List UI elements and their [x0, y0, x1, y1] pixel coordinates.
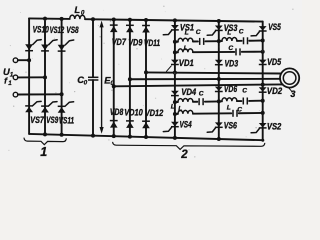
- label VD12: [145, 108, 164, 118]
- diode VD9: [126, 25, 134, 32]
- svg-text:VS5: VS5: [268, 22, 281, 32]
- junction lower branch at column 1 (top half): [173, 50, 177, 54]
- svg-text:VS6: VS6: [224, 121, 238, 131]
- svg-text:L: L: [185, 30, 189, 37]
- junction lower branch at column 3 (bottom half): [261, 111, 265, 115]
- label VD1: [179, 58, 194, 68]
- label VS10: [33, 25, 50, 35]
- junction upper branch at column 2 (top half): [217, 39, 221, 43]
- label VS8: [66, 25, 79, 35]
- wire: phase 2 input to leg B: [18, 76, 45, 78]
- junction upper branch at column 3 (bottom half): [261, 99, 265, 103]
- svg-text:VS9: VS9: [46, 115, 59, 125]
- label L: [171, 104, 175, 111]
- svg-text:VS8: VS8: [66, 25, 79, 35]
- input terminal 3: [13, 92, 18, 97]
- wire: inverter column 3 vertical: [262, 22, 264, 141]
- junction column 2 on top bus: [217, 19, 221, 23]
- label VS3: [224, 23, 238, 33]
- wire: feedback leg 2 vertical: [129, 20, 131, 137]
- wire: coil across column 2 to capacitor (bottom half): [193, 112, 231, 114]
- junction on bottom bus at leg B: [43, 132, 47, 136]
- svg-text:VS2: VS2: [267, 121, 282, 131]
- diode VD10: [126, 121, 134, 128]
- junction column 1 on top bus: [173, 18, 177, 22]
- svg-text:VD2: VD2: [267, 86, 283, 96]
- label VD4: [181, 87, 197, 97]
- wire: bottom DC bus: [29, 134, 263, 140]
- thyristor VS7: [25, 101, 41, 112]
- wire: coil to capacitor (VS6-VS2): [237, 100, 242, 102]
- svg-text:L: L: [227, 29, 231, 36]
- svg-text:C: C: [199, 91, 204, 98]
- thyristor VS10: [25, 40, 41, 51]
- thyristor VS11: [58, 102, 74, 113]
- diode VD7: [110, 25, 118, 32]
- wire: top DC bus, main segment to inverter: [85, 19, 263, 21]
- junction on top bus at leg B: [43, 17, 47, 21]
- wire: phase rail 2 (middle): [130, 78, 280, 80]
- junction C0 on bottom bus: [91, 134, 95, 138]
- wire: coil to capacitor (VS1-VS3 upper): [193, 40, 198, 42]
- thyristor VS5: [251, 26, 267, 36]
- label VS5: [268, 22, 281, 32]
- wire: upper commutation branch 1-3 segment col1 to coil: [175, 41, 178, 43]
- junction feedback leg 3 on top bus: [144, 18, 148, 22]
- inductor L (commutation, VS3-VS5 upper): [222, 38, 237, 42]
- diode VD8: [110, 121, 118, 128]
- label L: [184, 45, 188, 52]
- wire: capacitor to column 3 (bottom half): [249, 100, 263, 102]
- svg-text:VD5: VD5: [267, 57, 282, 67]
- svg-text:C: C: [228, 45, 233, 52]
- label C: [242, 88, 247, 95]
- label VS6: [224, 121, 238, 131]
- diode VD2: [259, 87, 267, 92]
- label 3: [290, 89, 295, 99]
- junction phase 2 on leg B: [43, 75, 47, 79]
- EMF arrow E0 (double-headed vertical arrow): [100, 21, 104, 134]
- label VD6: [224, 84, 238, 94]
- input terminal 1: [13, 58, 18, 63]
- wire: coil across column 2 to capacitor (top half): [193, 51, 234, 53]
- svg-text:2: 2: [180, 149, 188, 160]
- inductor L (commutation, VS1-VS3 upper): [178, 38, 193, 42]
- label L: [227, 29, 231, 36]
- svg-text:C: C: [237, 106, 242, 113]
- svg-text:VS4: VS4: [180, 119, 193, 129]
- junction feedback leg 1 on bottom bus: [112, 134, 116, 138]
- inductor L0 (DC link choke) on top bus: [70, 15, 85, 19]
- svg-text:VD9: VD9: [128, 38, 143, 48]
- svg-text:L: L: [184, 45, 188, 52]
- wire: rectifier leg C vertical: [61, 19, 63, 135]
- wire: lower commutation branch col1 to coil (bottom half): [175, 113, 178, 115]
- svg-text:VS12: VS12: [50, 25, 65, 35]
- junction lower branch at column 3 (top half): [261, 50, 265, 54]
- junction upper branch at column 1 (top half): [173, 40, 177, 44]
- svg-text:C: C: [196, 29, 201, 36]
- wire: rectifier leg B vertical: [44, 19, 46, 135]
- label VS1: [180, 23, 194, 33]
- capacitor C (commutation, VS2-VS4 lower): [233, 110, 237, 117]
- svg-text:VD7: VD7: [112, 37, 127, 47]
- wire: phase rail 1 (top): [146, 72, 281, 73]
- label VS7: [30, 115, 44, 125]
- junction rail 1 at inverter column 1: [173, 71, 177, 75]
- capacitor C (commutation, VS1-VS3 upper): [200, 38, 204, 45]
- svg-text:VD8: VD8: [110, 107, 124, 117]
- inductor L (commutation, VS2-VS4 lower): [178, 110, 193, 114]
- label VD11: [144, 38, 160, 48]
- capacitor C (commutation, VS6-VS2): [243, 98, 247, 105]
- svg-text:1: 1: [10, 72, 14, 79]
- svg-text:VS7: VS7: [30, 115, 44, 125]
- svg-text:L: L: [171, 104, 175, 111]
- diode VD1: [171, 60, 179, 65]
- inductor L (commutation, VS6-VS2): [222, 98, 237, 102]
- wire: top DC bus, left segment with corner at left leg: [29, 17, 70, 20]
- wire: inverter column 1 vertical: [174, 20, 176, 137]
- junction rail 3 at feedback leg 1: [112, 84, 116, 88]
- svg-text:VS11: VS11: [59, 115, 74, 125]
- capacitor C (commutation, VS3-VS5 upper): [244, 37, 248, 44]
- junction phase 3 on leg C: [60, 92, 64, 96]
- svg-text:VD11: VD11: [144, 38, 160, 48]
- diode VD12: [142, 121, 150, 128]
- capacitor C (commutation, VS5-VS1 lower): [236, 48, 240, 55]
- wire: lower commutation branch col1 to coil (top half): [175, 51, 178, 53]
- junction C0 on top bus: [91, 17, 95, 21]
- inductor L (commutation, VS4-VS6 upper): [178, 98, 193, 102]
- junction feedback leg 2 on bottom bus: [128, 135, 132, 139]
- wire: capacitor to column 2 (upper): [206, 40, 219, 42]
- diode VD6: [215, 87, 223, 92]
- label L: [227, 104, 231, 111]
- svg-text:C: C: [239, 29, 244, 36]
- label L: [185, 30, 189, 37]
- thyristor VS6: [207, 122, 223, 132]
- thyristor VS8: [58, 40, 74, 51]
- label L0: [74, 4, 85, 16]
- label VD7: [112, 37, 127, 47]
- label 2: [180, 149, 188, 161]
- wire: phase 3 input to leg C: [18, 93, 62, 95]
- junction column 3 on bottom bus: [261, 139, 264, 142]
- label VD8: [110, 107, 124, 117]
- wire: column 2 to coil (VS6-VS2): [219, 100, 222, 102]
- junction rail 3 at inverter column 3: [261, 83, 265, 87]
- label VD9: [128, 38, 143, 48]
- junction upper branch at column 3 (top half): [261, 39, 265, 43]
- motor M outer circle: [280, 68, 299, 87]
- svg-text:L: L: [227, 104, 231, 111]
- svg-text:C: C: [242, 88, 247, 95]
- junction rail 2 at feedback leg 2: [128, 77, 132, 81]
- label L: [178, 106, 182, 113]
- label VD2: [267, 86, 283, 96]
- wire: capacitor to column 3 (upper): [249, 40, 262, 42]
- junction rail 2 at inverter column 2: [217, 77, 221, 81]
- svg-text:VD1: VD1: [179, 58, 194, 68]
- junction column 1 on bottom bus: [173, 136, 177, 140]
- svg-text:VS10: VS10: [33, 25, 50, 35]
- junction feedback leg 3 on bottom bus: [144, 135, 148, 139]
- diode VD11: [142, 26, 150, 33]
- label C: [239, 29, 244, 36]
- wire: phase rail 3 (bottom): [114, 84, 283, 86]
- svg-text:1: 1: [8, 80, 12, 87]
- junction upper branch at column 2 (bottom half): [217, 99, 221, 103]
- label C: [228, 45, 233, 52]
- junction phase 1 on leg A: [27, 58, 31, 62]
- svg-text:1: 1: [40, 145, 47, 159]
- thyristor VS12: [41, 40, 57, 51]
- inductor L (commutation, VS5-VS1 lower): [178, 49, 193, 53]
- svg-text:VD12: VD12: [145, 108, 164, 118]
- junction column 2 on bottom bus: [217, 137, 221, 141]
- svg-text:0: 0: [81, 9, 85, 16]
- wire: coil to capacitor (VS4-VS6): [193, 101, 197, 103]
- svg-text:L: L: [74, 4, 80, 15]
- svg-text:3: 3: [290, 89, 295, 99]
- label f1: [4, 76, 12, 87]
- motor M inner circle: [283, 72, 296, 85]
- wire: inverter column 2 vertical: [218, 21, 220, 139]
- label 1: [40, 145, 47, 159]
- label VD3: [225, 58, 239, 68]
- thyristor VS1: [163, 25, 179, 35]
- wire: coil to capacitor (VS3-VS5 upper): [237, 40, 242, 42]
- stray mark near VD1 (scan artifact): [166, 66, 171, 72]
- wire: capacitor to column 3 (lower, bottom half): [239, 112, 263, 114]
- decorative scan speckles: [8, 6, 293, 158]
- label C: [199, 91, 204, 98]
- svg-text:VD10: VD10: [124, 108, 143, 118]
- wire: capacitor C0 lower lead: [92, 80, 94, 136]
- junction lower branch at column 1 (bottom half): [173, 112, 177, 116]
- thyristor VS4: [163, 122, 179, 132]
- label VS12: [50, 25, 65, 35]
- wire: upper commutation branch col1 to coil (bottom half): [175, 101, 178, 103]
- label VS4: [180, 119, 193, 129]
- label C0: [77, 74, 87, 86]
- label VS2: [267, 121, 282, 131]
- label VS9: [46, 115, 59, 125]
- pointer line to label 3: [288, 87, 291, 90]
- brace 1 under rectifier block: [24, 138, 66, 145]
- thyristor VS3: [207, 26, 223, 36]
- wire: column 2 to coil (VS3-VS5 upper): [219, 40, 222, 42]
- svg-text:VD3: VD3: [225, 58, 239, 68]
- capacitor C (commutation, VS4-VS6): [199, 98, 203, 105]
- junction on bottom bus at leg C: [60, 133, 64, 137]
- label VD5: [267, 57, 282, 67]
- thyristor VS2: [251, 123, 267, 133]
- junction feedback leg 1 on top bus: [112, 18, 116, 22]
- capacitor C0 plates: [88, 77, 98, 80]
- junction feedback leg 2 on top bus: [128, 18, 132, 22]
- wire: rectifier leg A vertical: [28, 18, 30, 134]
- label E0: [104, 74, 114, 86]
- svg-text:VD6: VD6: [224, 84, 238, 94]
- label U1: [3, 66, 14, 78]
- junction upper branch at column 1 (bottom half): [173, 100, 177, 104]
- wire: capacitor C0 upper lead: [92, 19, 94, 77]
- label VD10: [124, 108, 143, 118]
- wire: feedback leg 3 vertical: [145, 20, 147, 137]
- diode VD5: [259, 60, 267, 65]
- wire: capacitor to column 2 (bottom half): [205, 100, 219, 102]
- wire: feedback leg 1 vertical: [113, 20, 115, 137]
- diode VD4: [171, 91, 179, 96]
- wire: phase 1 input to leg A: [18, 59, 29, 61]
- junction rail 1 at feedback leg 3: [144, 70, 148, 74]
- label C: [196, 29, 201, 36]
- label VS11: [59, 115, 74, 125]
- thyristor VS9: [41, 102, 57, 113]
- junction on top bus at leg C: [60, 17, 64, 21]
- wire: capacitor to column 3 (lower, top half): [242, 51, 263, 53]
- diode VD3: [215, 60, 223, 65]
- svg-text:0: 0: [84, 80, 88, 87]
- svg-text:VD4: VD4: [181, 87, 197, 97]
- label C: [237, 106, 242, 113]
- input terminal 2: [13, 75, 18, 80]
- brace 2 under inverter block: [113, 142, 265, 150]
